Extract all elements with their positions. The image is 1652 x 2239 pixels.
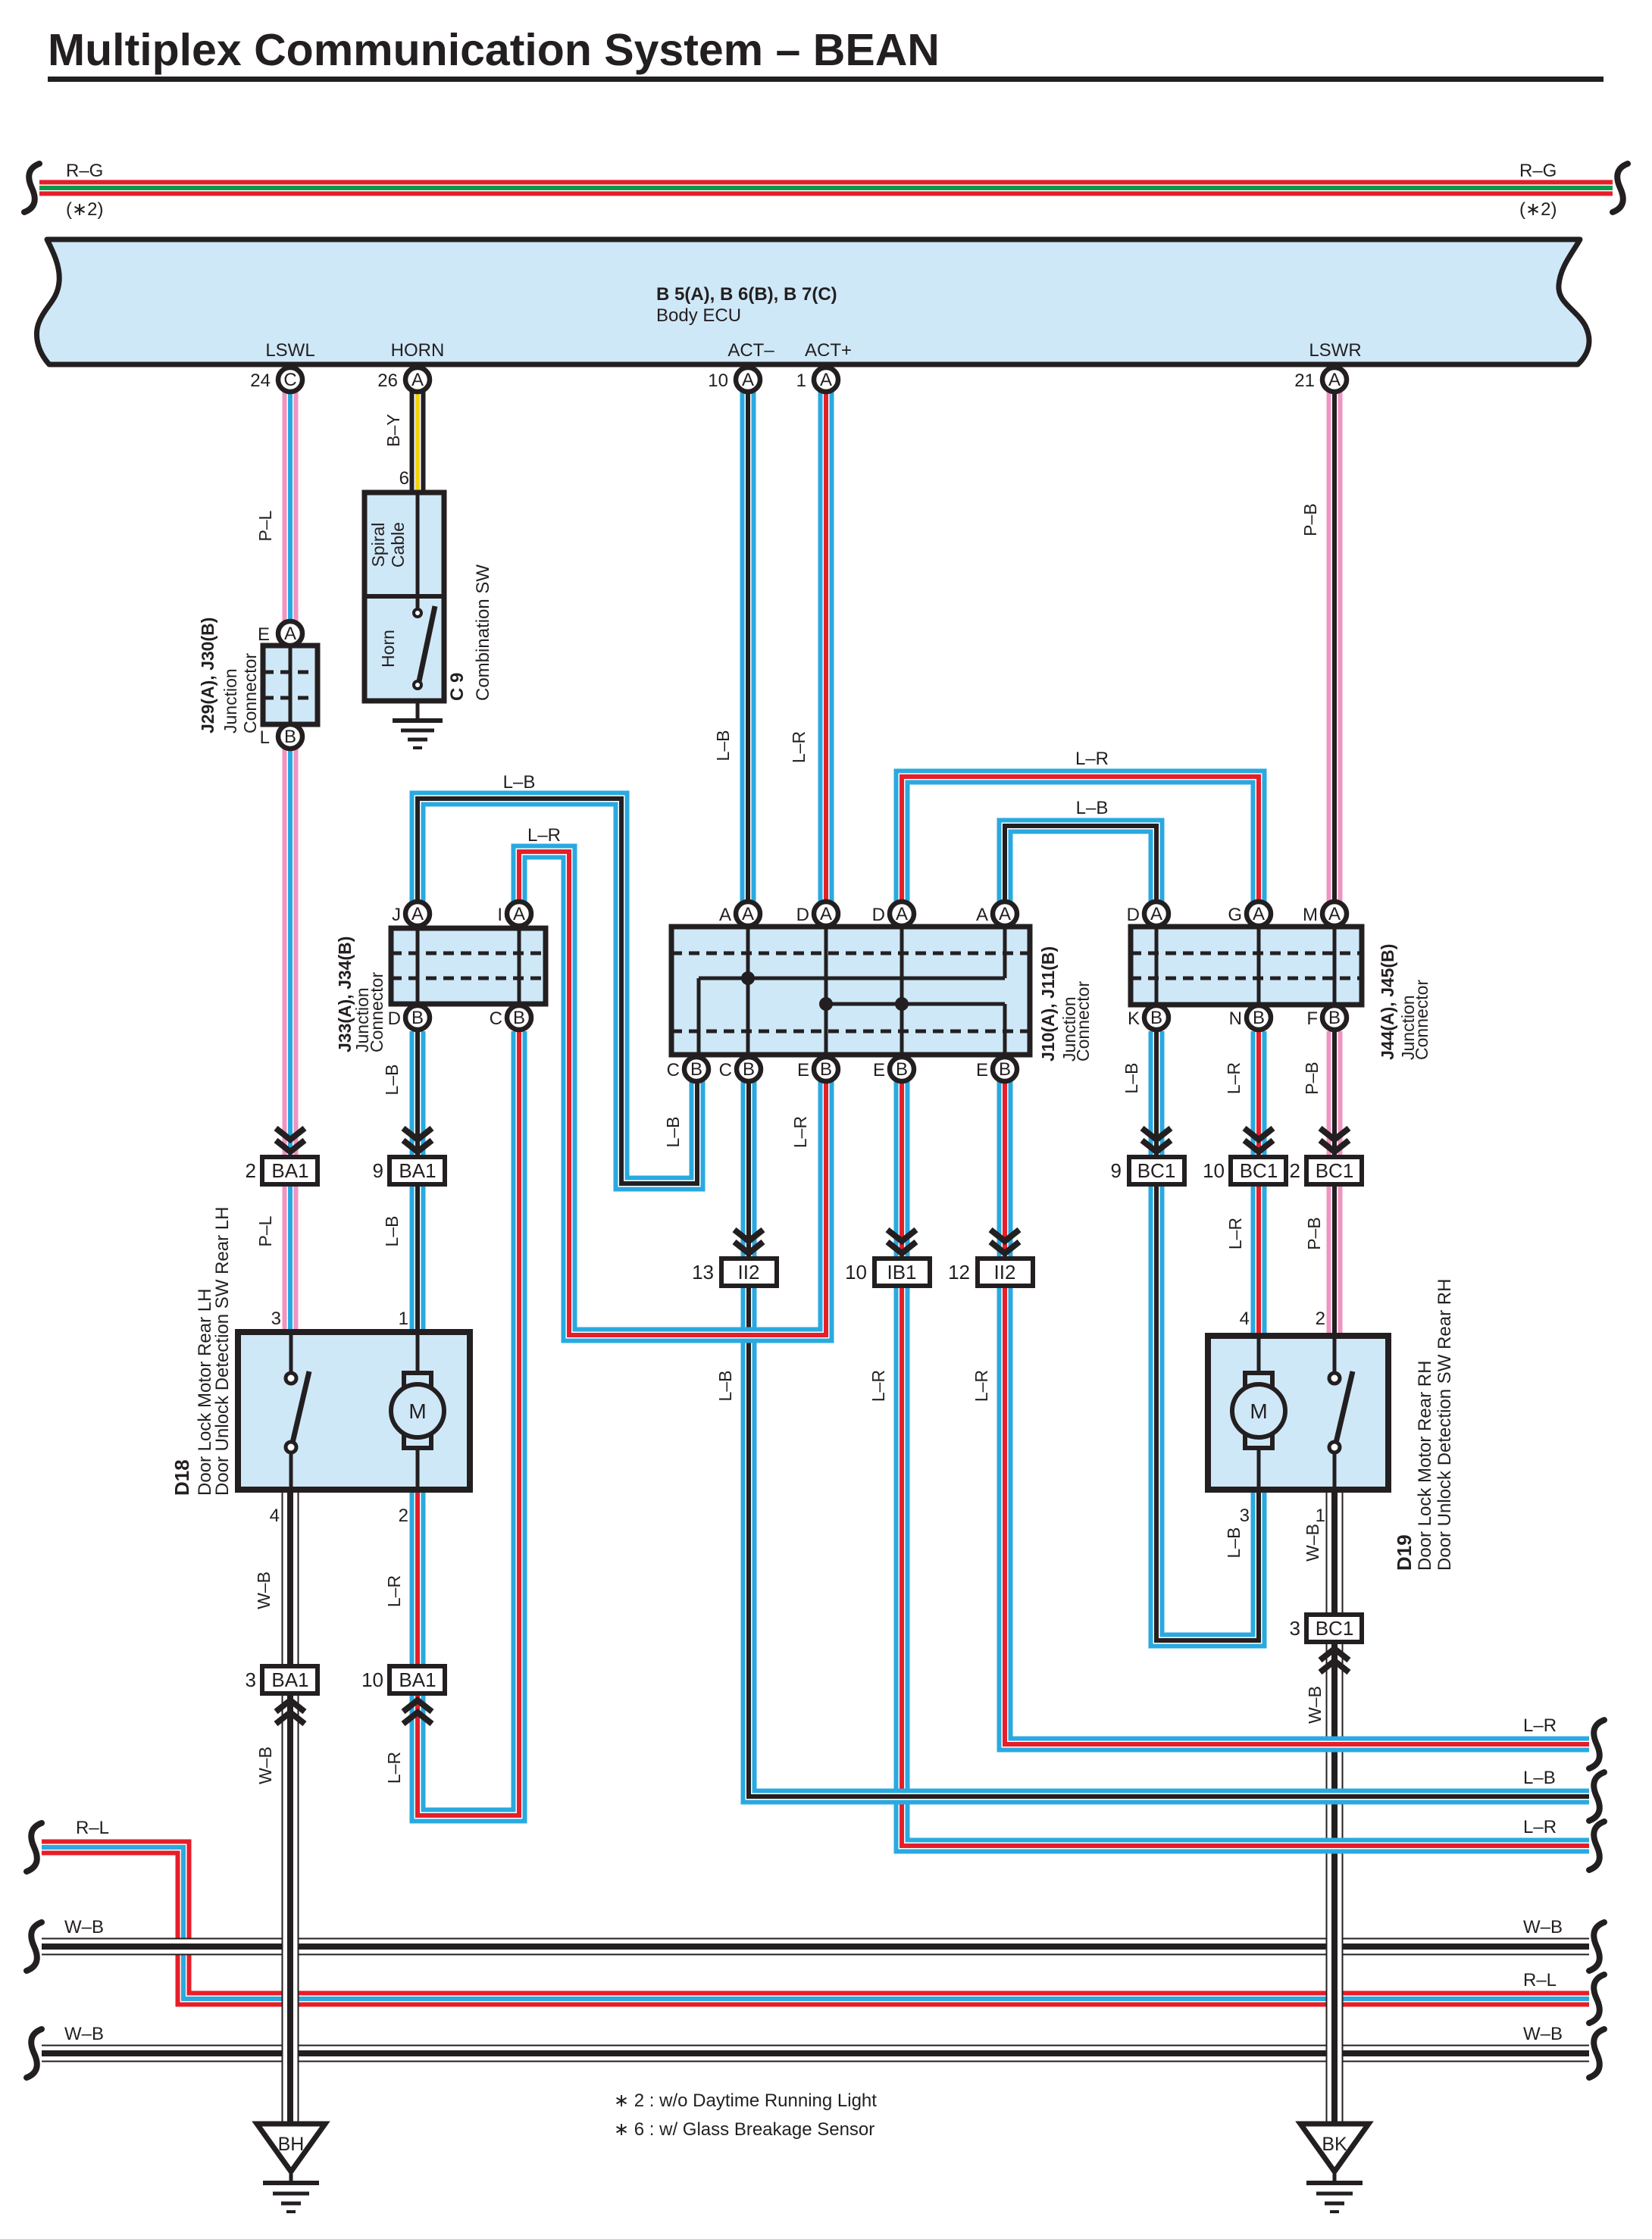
ECU pin name ACT- [727,340,774,361]
wire R-G bus (top horizontal) [39,180,1613,196]
svg-text:W–B: W–B [64,1917,104,1937]
svg-text:3: 3 [271,1309,281,1329]
svg-text:L–R: L–R [868,1370,888,1402]
wire L-B from J44 pin K/B down, U-turn, up to D19 pin 3 [1156,1031,1259,1640]
label L-R below II2-12 [971,1370,991,1402]
svg-text:24: 24 [250,371,271,391]
label D19 Door Lock Motor Rear RH / Door Unlock Detection SW Rear RH [1393,1279,1455,1571]
svg-text:B: B [743,1059,755,1080]
svg-text:(∗2): (∗2) [66,199,103,220]
svg-text:9: 9 [1111,1159,1122,1182]
svg-text:BC1: BC1 [1316,1159,1354,1182]
J10 pin C/B (to J33 loop) [667,1057,709,1081]
svg-text:L–B: L–B [1122,1063,1141,1094]
svg-text:W–B: W–B [64,2024,104,2044]
ECU pin 26 A (HORN) [377,367,430,392]
wire L-R from ECU pin 1A (ACT+) to J10 pin D [818,380,834,902]
D18 door unlock detection switch [286,1332,309,1490]
inline connector arrow + box 10 BC1 (L-R) [1203,1128,1286,1184]
continuation mark right W-B lower [1589,2029,1604,2078]
svg-text:B: B [1328,1008,1341,1028]
svg-text:(∗2): (∗2) [1519,199,1557,220]
label L-B below II2-13 [715,1371,735,1402]
inline connector arrow + box 13 II2 (L-B) [692,1230,777,1286]
label L-R below J44 N [1224,1062,1244,1094]
label L-B between J33 and BA1-9 [382,1065,402,1096]
J44 pin D/A [1127,902,1169,926]
J44 pin M/A [1303,902,1347,926]
svg-text:4: 4 [270,1506,280,1526]
svg-text:L–R: L–R [1225,1218,1245,1249]
label P-B (LSWR wire) [1300,503,1320,536]
svg-text:L–B: L–B [503,772,536,793]
svg-text:A: A [719,905,731,925]
svg-text:L–R: L–R [1075,749,1109,769]
svg-text:II2: II2 [994,1261,1016,1284]
svg-text:W–B: W–B [254,1571,274,1609]
inline connector arrow + box 9 BC1 (L-B) [1111,1128,1184,1184]
svg-text:L–R: L–R [384,1575,404,1607]
svg-text:A: A [820,370,832,390]
label C 9 Combination SW [447,564,493,701]
svg-text:L–B: L–B [1523,1768,1556,1788]
inline connector arrow + box 9 BA1 (L-B) [373,1128,445,1184]
inline connector box 3 BC1 + arrow (W-B) [1290,1615,1362,1672]
label P-L (LSWL wire) [255,510,275,541]
wire P-B from ECU pin 21A (LSWR) to J44 pin M [1327,380,1343,902]
svg-text:BC1: BC1 [1240,1159,1278,1182]
svg-text:3: 3 [1240,1506,1250,1526]
svg-text:L–R: L–R [790,1116,810,1148]
svg-text:C: C [719,1060,732,1080]
label L-R below IB1-10 [868,1370,888,1402]
D19 door lock motor M [1232,1336,1285,1490]
J10 pin E/B (to II2-12) [976,1057,1017,1081]
J10 pin C/B (to II2-13) [719,1057,761,1081]
label P-B below BC1-2 [1304,1217,1324,1249]
junction connector J10(A), J11(B) [671,927,1030,1055]
label R-G right [1519,161,1557,181]
label W-B right lower rail [1523,2024,1563,2044]
svg-text:D19: D19 [1393,1534,1416,1571]
label L-B above J33 loop [503,772,536,793]
svg-text:12: 12 [948,1261,970,1284]
wire L-B loop: J10 pin A/A up over to J44 pin D/A [1005,826,1156,902]
wire P-B from J44 pin F/B through BC1-2 to D19 pin 2 [1327,1031,1343,1336]
svg-text:A: A [1328,370,1341,390]
svg-text:∗ 6 : w/ Glass Breakage Sensor: ∗ 6 : w/ Glass Breakage Sensor [614,2119,874,2140]
label J10(A), J11(B) Junction Connector [1038,946,1093,1062]
label L-R right upper rail [1523,1715,1557,1736]
svg-text:Connector: Connector [1412,980,1431,1060]
wire L-R from J44 pin N/B through BC1-10 to D19 pin 4 [1251,1031,1267,1336]
svg-text:P–B: P–B [1300,503,1320,536]
label L-R below BA1-10 [384,1752,404,1784]
D19 Door Lock Motor Rear RH box [1208,1336,1388,1490]
continuation mark left W-B upper rail [27,1922,42,1971]
label L-R above loop to J44 G [1075,749,1109,769]
svg-text:Door Lock Motor Rear RH: Door Lock Motor Rear RH [1415,1361,1435,1571]
label R-L left [76,1818,109,1838]
svg-text:B: B [513,1008,525,1028]
svg-text:A: A [820,904,832,924]
ECU pin 24 C (LSWL) [250,367,302,392]
label (*2) right [1519,199,1557,220]
continuation mark right of R-G wire [1613,164,1628,212]
svg-text:2: 2 [246,1159,256,1182]
svg-text:L–R: L–R [1523,1715,1557,1736]
C9 Combination SW box with Spiral Cable and Horn sections [365,493,444,701]
svg-text:HORN: HORN [391,340,445,361]
wire L-R from J10 pin E/B through II2-12 down then right to edge [1005,1081,1589,1744]
svg-text:L–B: L–B [715,1371,735,1402]
svg-text:B: B [284,727,296,747]
svg-text:BA1: BA1 [399,1668,436,1691]
svg-text:IB1: IB1 [887,1261,916,1284]
inline connector arrow + box 2 BA1 (P-L) [246,1128,318,1184]
D19 pin numbers [1240,1309,1325,1526]
svg-text:A: A [411,370,424,390]
J33 pin D/B [388,1005,430,1030]
svg-text:26: 26 [377,371,398,391]
svg-text:W–B: W–B [1523,1917,1563,1937]
label L-R above J33 inner loop [527,825,561,846]
svg-text:Spiral: Spiral [368,523,388,568]
label J44(A), J45(B) Junction Connector [1378,944,1431,1060]
horn switch [414,606,435,689]
svg-text:Door Unlock Detection SW Rear: Door Unlock Detection SW Rear RH [1435,1279,1455,1571]
svg-text:Door Unlock Detection SW Rear: Door Unlock Detection SW Rear LH [212,1207,233,1496]
svg-text:10: 10 [1203,1159,1225,1182]
wire B-Y from ECU pin 26A (HORN) to Spiral Cable [410,380,426,493]
inline connector box 10 BA1 + arrow (L-R) [361,1666,445,1724]
svg-text:A: A [999,904,1011,924]
inline connector arrow + box 10 IB1 (L-R) [845,1230,930,1286]
svg-text:P–B: P–B [1302,1062,1322,1094]
label L-B above loop to J44 D [1076,798,1109,818]
svg-text:D: D [388,1008,401,1029]
continuation mark left R-L [27,1823,42,1872]
junction dot at J10 net1 [741,971,755,985]
svg-text:BH: BH [278,2134,305,2155]
J10 pin E/B (to IB1-10) [873,1057,914,1081]
continuation mark right L-R upper [1589,1720,1604,1768]
svg-text:B 5(A), B 6(B), B 7(C): B 5(A), B 6(B), B 7(C) [656,284,837,305]
wire L-B from J10 pin C/B through II2-13 down then right to edge [749,1081,1589,1797]
svg-text:D: D [796,905,809,925]
svg-text:Horn: Horn [378,630,398,668]
label R-G left [66,161,103,181]
wire W-B from D19 pin 1 through BC1-3 down to ground BK [1326,1490,1344,2125]
svg-text:Connector: Connector [240,653,260,733]
svg-text:W–B: W–B [1305,1686,1325,1724]
wire W-B rail lower [42,2045,1589,2062]
J10 pin D/A (ACT+) [796,902,838,926]
svg-text:M: M [1303,905,1318,925]
J29 pin E/A [258,621,302,646]
svg-text:R–L: R–L [1523,1970,1557,1990]
wire L-B from ECU pin 10A (ACT-) to J10 pin A [740,380,756,902]
junction connector J33(A), J34(B) [391,928,546,1004]
svg-text:L–R: L–R [789,731,809,763]
svg-text:BA1: BA1 [399,1159,436,1182]
svg-text:B: B [1150,1008,1162,1028]
ground BH [257,2124,325,2212]
label L-B below J44 K [1122,1063,1141,1094]
svg-text:P–L: P–L [255,510,275,541]
svg-text:ACT–: ACT– [727,340,774,361]
D19 door unlock detection switch [1329,1336,1353,1490]
label L-B (ACT- wire) [713,730,733,761]
continuation mark left W-B lower rail [27,2029,42,2078]
svg-text:L–B: L–B [382,1065,402,1096]
svg-text:21: 21 [1294,371,1315,391]
svg-text:A: A [742,370,754,390]
continuation mark left of R-G wire [24,164,39,212]
svg-text:2: 2 [1316,1309,1325,1329]
svg-text:F: F [1306,1008,1318,1029]
svg-text:R–G: R–G [66,161,103,181]
svg-text:1: 1 [399,1309,408,1329]
svg-text:P–L: P–L [255,1215,275,1246]
svg-text:I: I [497,905,502,925]
junction dot at J10 net2 left [819,997,833,1011]
svg-text:Cable: Cable [388,522,408,568]
svg-text:B: B [896,1059,908,1080]
svg-text:1: 1 [796,371,806,391]
label L-R below D18 pin 2 [384,1575,404,1607]
label W-B below BA1-3 [255,1746,275,1784]
label L-B right rail [1523,1768,1556,1788]
svg-text:C 9: C 9 [447,673,468,701]
svg-text:L–R: L–R [527,825,561,846]
continuation mark right W-B upper [1589,1922,1604,1971]
svg-text:E: E [797,1060,809,1080]
J10 pin A/A (to J44) [976,902,1017,926]
svg-text:A: A [513,904,525,924]
Body ECU B5(A),B6(B),B7(C) box [36,239,1589,364]
svg-text:3: 3 [1290,1617,1300,1640]
label J33(A), J34(B) Junction Connector [335,937,386,1052]
label W-B below D19 pin 1 [1303,1524,1322,1562]
svg-text:K: K [1128,1008,1140,1029]
wire L-R loop: J10 pin D/A up over to J44 pin G/A [902,777,1259,902]
svg-text:L–B: L–B [382,1216,402,1247]
wire W-B from D18 pin 4 through BA1-3 down to ground BH [282,1490,299,2125]
svg-text:L–R: L–R [1523,1817,1557,1837]
svg-text:3: 3 [246,1668,256,1691]
svg-text:M: M [1250,1399,1267,1423]
svg-text:B: B [999,1059,1011,1080]
note *6 w/ Glass Breakage Sensor [614,2119,874,2140]
inline connector arrow + box 2 BC1 (P-B) [1290,1128,1362,1184]
J44 pin G/A [1228,902,1271,926]
svg-text:C: C [283,370,296,390]
label L-B on riser to D19 pin 3 [1224,1528,1244,1559]
svg-text:J44(A), J45(B): J44(A), J45(B) [1378,944,1397,1060]
label W-B left lower [64,2024,104,2044]
svg-text:N: N [1229,1008,1242,1029]
ECU pin 1 A (ACT+) [796,367,838,392]
wire L-R from J10 pin E/B through IB1-10 down then right to edge [902,1081,1589,1846]
ECU pin name LSWL [265,340,314,361]
svg-text:G: G [1228,905,1242,925]
label L-R (ACT+ wire) [789,731,809,763]
pin number 6 of spiral cable connector [399,468,409,489]
J33 pin J/A [392,902,430,926]
label W-B below D18 pin 4 [254,1571,274,1609]
svg-text:D: D [1127,905,1140,925]
label L-B on riser to J10 C/B [663,1117,683,1148]
wire P-L from ECU pin 24C (LSWL) to J29 pin A [283,380,299,621]
ground below horn switch [393,701,443,748]
svg-text:10: 10 [361,1668,383,1691]
label P-L (below J29) [255,1215,275,1246]
svg-text:2: 2 [399,1506,408,1526]
svg-text:10: 10 [845,1261,867,1284]
ECU pin name HORN [391,340,445,361]
D18 pin numbers [270,1309,408,1526]
svg-text:L–B: L–B [663,1117,683,1148]
J10 pin A/A (ACT-) [719,902,760,926]
D18 Door Lock Motor Rear LH box [238,1332,470,1490]
svg-text:E: E [873,1060,885,1080]
ground BK [1300,2124,1369,2212]
svg-text:L–R: L–R [971,1370,991,1402]
inline connector box 3 BA1 + arrow (W-B) [246,1666,318,1724]
wire L-B from J33 pin D/B down through BA1-9 to D18 pin 1 [410,1031,426,1332]
wire L-R loop: J33 pin I/A up over, down, jog right to J10 pin E/B [519,852,826,1335]
svg-text:BC1: BC1 [1137,1159,1176,1182]
label (*2) left [66,199,103,220]
svg-text:B: B [690,1059,702,1080]
junction connector J44(A), J45(B) [1131,927,1362,1005]
J33 pin I/A [497,902,531,926]
wire W-B rail upper [42,1938,1589,1956]
J33 pin C/B [490,1005,531,1030]
svg-text:L–B: L–B [713,730,733,761]
label L-R right lower rail [1523,1817,1557,1837]
J44 pin K/B [1128,1005,1169,1030]
svg-text:LSWR: LSWR [1309,340,1361,361]
svg-text:W–B: W–B [255,1746,275,1784]
svg-text:L–R: L–R [384,1752,404,1784]
svg-text:A: A [411,904,424,924]
svg-text:BA1: BA1 [271,1668,308,1691]
svg-text:C: C [667,1060,680,1080]
label B-Y (HORN wire) [383,414,403,446]
label L-R on leg to J10 E/B [790,1116,810,1148]
svg-text:M: M [408,1399,426,1423]
svg-text:∗ 2 : w/o Daytime Running Ligh: ∗ 2 : w/o Daytime Running Light [614,2090,877,2111]
svg-text:BA1: BA1 [271,1159,308,1182]
svg-text:J10(A), J11(B): J10(A), J11(B) [1038,946,1058,1062]
junction connector J29(A), J30(B) [263,646,318,724]
label P-B below J44 F [1302,1062,1322,1094]
ECU pin 10 A (ACT-) [708,367,760,392]
svg-text:Combination SW: Combination SW [473,564,493,701]
svg-text:ACT+: ACT+ [805,340,852,361]
label W-B right upper rail [1523,1917,1563,1937]
J10 pin E/B (to J33 I) [797,1057,838,1081]
svg-text:Body ECU: Body ECU [656,305,741,326]
label Horn [378,630,398,668]
wire L-R from D18 pin 2 down to BA1-10 [410,1490,426,1666]
svg-text:A: A [284,624,296,644]
inline connector arrow + box 12 II2 (L-R) [948,1230,1033,1286]
svg-text:Connector: Connector [1073,981,1093,1062]
svg-text:J29(A), J30(B): J29(A), J30(B) [198,618,217,733]
continuation mark right L-B [1589,1772,1604,1821]
svg-text:W–B: W–B [1523,2024,1563,2044]
svg-text:D18: D18 [171,1459,193,1496]
svg-text:A: A [1328,904,1341,924]
svg-text:A: A [896,904,908,924]
svg-text:B: B [820,1059,832,1080]
svg-text:R–L: R–L [76,1818,109,1838]
svg-text:A: A [1150,904,1162,924]
ECU pin 21 A (LSWR) [1294,367,1347,392]
svg-text:2: 2 [1290,1159,1300,1182]
svg-text:1: 1 [1316,1506,1325,1526]
label W-B left upper [64,1917,104,1937]
wire P-L from J29 pin B down to D18 pin 3 [283,749,299,1332]
ECU pin name ACT+ [805,340,852,361]
svg-text:BC1: BC1 [1316,1617,1354,1640]
svg-text:W–B: W–B [1303,1524,1322,1562]
svg-text:Connector: Connector [367,972,386,1052]
J29 pin L/B [260,724,302,749]
svg-text:L: L [260,727,270,748]
svg-text:4: 4 [1240,1309,1250,1329]
svg-text:10: 10 [708,371,728,391]
svg-text:9: 9 [373,1159,383,1182]
wire L-R from BA1-10 down, U-turn, up to J33 pin C/B [418,1031,519,1815]
svg-text:L–B: L–B [1076,798,1109,818]
junction dot at J10 net2 right [895,997,909,1011]
svg-text:II2: II2 [738,1261,760,1284]
svg-text:B: B [1253,1008,1265,1028]
svg-text:13: 13 [692,1261,714,1284]
svg-text:J: J [392,905,401,925]
svg-text:P–B: P–B [1304,1217,1324,1249]
wire R-L (left squiggle, jog down, runs to right edge) [42,1847,1589,1999]
J10 pin D/A (to J44) [872,902,914,926]
svg-text:L–B: L–B [1224,1528,1244,1559]
note *2 w/o Daytime Running Light [614,2090,877,2111]
label J29(A), J30(B) Junction Connector [198,618,260,733]
label D18 Door Lock Motor Rear LH / Door Unlock Detection SW Rear LH [171,1207,233,1496]
J44 pin F/B [1306,1005,1347,1030]
svg-text:A: A [976,905,988,925]
svg-text:LSWL: LSWL [265,340,314,361]
label L-R below BC1-10 [1225,1218,1245,1249]
svg-text:E: E [976,1060,988,1080]
svg-text:D: D [872,905,885,925]
svg-text:A: A [1253,904,1265,924]
svg-text:Junction: Junction [221,668,240,733]
wire L-B loop: J33 pin J/A up over to J10 pin C/B via U-turn [418,799,697,1184]
D18 door lock motor M [391,1332,444,1490]
svg-text:6: 6 [399,468,409,489]
svg-text:B: B [411,1008,424,1028]
continuation mark right R-L [1589,1975,1604,2023]
svg-text:E: E [258,624,270,645]
svg-text:L–R: L–R [1224,1062,1244,1094]
wire L-B rail overlay (L-B passes over the L-R risers) [834,1789,1589,1805]
J44 pin N/B [1229,1005,1271,1030]
svg-text:Multiplex Communication System: Multiplex Communication System – BEAN [48,25,940,75]
